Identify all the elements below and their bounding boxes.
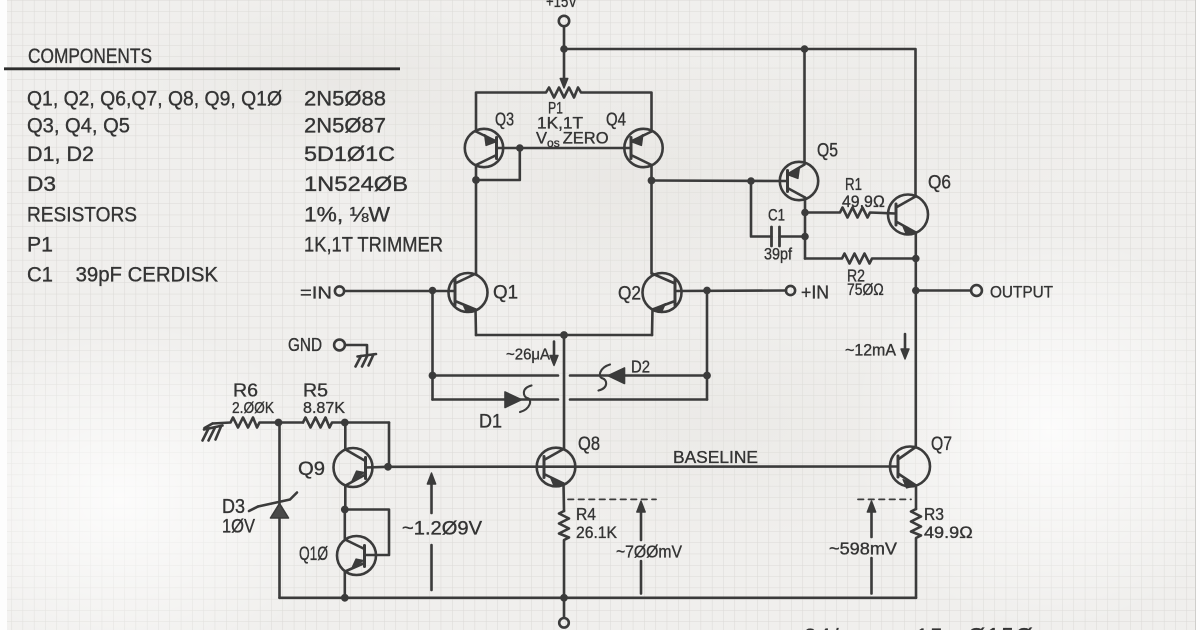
wire: Q3 collector down to Q1 [475, 165, 478, 274]
node: right D2-rail dot [703, 372, 711, 380]
node: Q5 base / C1 junction dot [747, 177, 755, 185]
P1 wiper arrow [560, 79, 568, 89]
node: +IN branch dot [703, 287, 711, 295]
wire: right diode-rail drop [706, 290, 709, 399]
svg-text:D1: D1 [479, 411, 502, 433]
svg-text:BASELINE: BASELINE [673, 447, 758, 467]
node: Q10 emitter on bottom rail [341, 594, 349, 602]
svg-text:+IN: +IN [801, 283, 829, 303]
node: +15V junction dot [560, 45, 568, 53]
wire: Q8 emitter down with R4 [562, 484, 565, 512]
wire: Q3 base to Q4 base [497, 147, 631, 150]
svg-text:RESISTORS: RESISTORS [27, 204, 137, 227]
svg-text:1ØV: 1ØV [222, 516, 255, 538]
wire: GND stub [345, 345, 367, 356]
svg-text:GND: GND [288, 335, 322, 355]
node: tail junction dot [560, 331, 568, 339]
resistor R5 8.87K [303, 418, 389, 428]
resistor R6 2.00K [213, 418, 304, 428]
svg-text:75ØΩ: 75ØΩ [847, 281, 884, 299]
wire: baseline Q9 to Q7 [388, 465, 898, 468]
wire: Q6 emitter column down to Q7 collector [914, 233, 917, 448]
wire: +15V terminal down to P1 wiper [563, 27, 566, 80]
svg-text:C1 39pF CERDISK: C1 39pF CERDISK [27, 264, 218, 287]
transistor Q9 (2N5088) [334, 448, 373, 487]
wire: Q1 emitter to common rail [474, 310, 477, 336]
transistor Q8 (2N5088) [537, 448, 576, 487]
wire: base-collector tie link of Q3 [476, 148, 520, 180]
svg-text:R4: R4 [576, 504, 596, 524]
dashed measure line at Q7 emitter [858, 498, 911, 500]
transistor Q10 (2N5088, diode-connected) [337, 536, 376, 575]
node: left D2-rail dot [429, 372, 437, 380]
svg-text:8.87K: 8.87K [303, 400, 345, 417]
svg-text:VosZERO: VosZERO [536, 130, 609, 151]
node: R4 bottom on rail [560, 594, 568, 602]
wire: Q2 base to +IN [676, 289, 787, 292]
svg-text:Ø15Ø: Ø15Ø [968, 624, 1035, 630]
svg-text:~26μA: ~26μA [506, 347, 550, 364]
capacitor C1 39pF [751, 181, 772, 237]
wire: D1 rail (lower) [433, 398, 708, 401]
svg-text:R1: R1 [845, 174, 862, 194]
node: -IN branch dot [429, 287, 437, 295]
current arrow ~12mA [904, 334, 907, 351]
wire: Q4 collector down to Q2 [650, 165, 653, 274]
node: R1 row dot [801, 209, 809, 217]
svg-text:Q5: Q5 [817, 141, 838, 162]
resistor R4 26.1K [559, 511, 569, 598]
svg-text:26.1K: 26.1K [576, 523, 618, 542]
resistor R3 49.9 ohm [911, 509, 921, 598]
svg-text:5D1Ø1C: 5D1Ø1C [304, 143, 395, 166]
measure arrow ~1.209V [430, 482, 433, 590]
transistor Q3 (2N5087 PNP, diode-connected) [465, 129, 503, 167]
node: Q9 emitter / Q10 collector dot [341, 506, 349, 514]
node: Q5 collector junction on top rail [801, 45, 809, 53]
wire: -15V stub [563, 598, 566, 618]
svg-text:2N5Ø87: 2N5Ø87 [304, 115, 386, 138]
paper shading blotches [0, 320, 340, 630]
svg-text:R3: R3 [924, 504, 944, 524]
svg-text:R5: R5 [303, 381, 328, 401]
svg-text:24/: 24/ [804, 624, 841, 630]
svg-text:D1, D2: D1, D2 [27, 143, 94, 166]
svg-text:R6: R6 [233, 381, 258, 401]
wire: left diode-rail drop [431, 291, 434, 400]
wire: R5 rail corner down to Q9 base node [388, 423, 391, 467]
node: Q9 base / baseline dot [384, 463, 392, 471]
svg-text:~7ØØmV: ~7ØØmV [616, 542, 682, 562]
+15V supply terminal [559, 16, 569, 26]
ground symbol (GND terminal) [358, 354, 377, 357]
svg-text:~12mA: ~12mA [845, 342, 896, 360]
wire: bottom rail [280, 596, 917, 599]
node: R2/Q6-emitter dot [912, 255, 920, 263]
node: C1 right plate dot [801, 233, 809, 241]
GND terminal [334, 340, 345, 351]
left white edge strip [0, 0, 7, 630]
-15V terminal (cut at bottom) [559, 618, 569, 628]
svg-text:D2: D2 [631, 357, 650, 377]
measure arrow ~598mV [870, 510, 873, 594]
svg-text:1%, ⅛W: 1%, ⅛W [304, 204, 390, 227]
transistor Q4 (2N5087 PNP) [624, 129, 662, 167]
wire: common emitter rail [476, 334, 652, 337]
svg-text:39pf: 39pf [764, 246, 792, 264]
svg-text:Q4: Q4 [606, 109, 626, 130]
wire: Q9 collector up to R5 rail [344, 423, 347, 450]
node: Q4 collector junction dot [648, 177, 656, 185]
svg-text:Q7: Q7 [931, 434, 952, 455]
svg-text:Q1Ø: Q1Ø [299, 544, 328, 565]
resistor R1 49.9 ohm [805, 208, 896, 218]
dashed measure line at Q8 emitter [568, 498, 656, 500]
wire: output stub [916, 289, 971, 292]
node: Q3 collector-base tie dot [472, 176, 480, 184]
-IN terminal [335, 286, 344, 295]
node: output junction dot [912, 287, 920, 295]
transistor Q7 (2N5088) [890, 447, 930, 487]
wire: -IN to Q1 base [344, 290, 454, 293]
wire: Q5 collector riser [803, 49, 806, 163]
svg-text:C1: C1 [768, 207, 785, 225]
svg-text:15: 15 [916, 624, 944, 630]
svg-text:Q1, Q2, Q6,Q7, Q8, Q9, Q1Ø: Q1, Q2, Q6,Q7, Q8, Q9, Q1Ø [27, 88, 282, 111]
right white edge strip [1196, 0, 1200, 630]
svg-text:Q6: Q6 [928, 172, 951, 194]
wire: Q2 emitter to common rail [651, 310, 654, 336]
zener D3 (1N5240B 10V) [278, 423, 281, 598]
svg-text:D3: D3 [27, 173, 56, 196]
node: R5/Q9 collector dot [341, 419, 349, 427]
components heading underline [4, 67, 400, 70]
diode D2 (5D101C, pointing left) [608, 368, 625, 384]
wire: Q10 emitter to bottom rail [343, 572, 346, 598]
svg-text:1N524ØB: 1N524ØB [304, 173, 408, 196]
current arrow ~26uA [553, 342, 556, 358]
potentiometer P1 (1K,1T) [476, 88, 652, 132]
transistor Q5 (2N5087 PNP) [780, 162, 818, 200]
+IN terminal [786, 286, 795, 295]
wire: Q4 collector to Q5 base [652, 179, 788, 182]
wire: Q10 base tie link [345, 510, 389, 556]
wire: Q5 emitter down through R1/C1/R2 nodes [804, 198, 807, 259]
node: Q3 base junction dot [516, 144, 524, 152]
transistor Q1 (2N5088 NPN) [449, 273, 488, 312]
svg-text:Q2: Q2 [618, 283, 641, 305]
wire: top rail from +15V node to Q6 collector column [564, 49, 916, 196]
wire: Q9 base to baseline node [366, 465, 389, 468]
resistor R2 750 ohm [805, 254, 916, 264]
wire: Q9 emitter down [344, 486, 347, 510]
wire: D2 rail (upper) [433, 374, 708, 377]
svg-text:=IN: =IN [300, 283, 332, 303]
ground symbol (left of R6) [205, 424, 213, 429]
svg-text:Q9: Q9 [298, 458, 325, 480]
svg-text:P1: P1 [27, 234, 53, 257]
wire: Q10 collector from node [343, 510, 346, 540]
measure arrow ~700mV [640, 510, 643, 594]
transistor Q2 (2N5088 NPN) [643, 273, 682, 312]
svg-text:49.9Ω: 49.9Ω [842, 193, 885, 211]
svg-text:2.ØØK: 2.ØØK [232, 400, 274, 417]
wire: tail current line down to Q8 collector [563, 335, 566, 449]
svg-text:+15V: +15V [546, 0, 578, 11]
node: R6/R5 junction dot (D3 top) [275, 419, 283, 427]
OUTPUT terminal [971, 285, 982, 296]
svg-text:49.9Ω: 49.9Ω [924, 524, 973, 542]
wire: Q7 emitter down with R3 [915, 486, 918, 510]
svg-text:COMPONENTS: COMPONENTS [28, 44, 152, 68]
svg-text:1K,1T TRIMMER: 1K,1T TRIMMER [304, 234, 443, 257]
svg-text:~1.2Ø9V: ~1.2Ø9V [402, 519, 482, 540]
svg-text:~598mV: ~598mV [829, 539, 897, 559]
svg-text:Q3: Q3 [495, 109, 514, 130]
svg-text:Q3, Q4, Q5: Q3, Q4, Q5 [27, 115, 130, 138]
transistor Q6 (2N5088 NPN) [888, 195, 928, 235]
svg-text:OUTPUT: OUTPUT [990, 283, 1053, 302]
svg-text:Q8: Q8 [578, 434, 600, 455]
svg-text:Q1: Q1 [493, 282, 518, 304]
svg-text:2N5Ø88: 2N5Ø88 [304, 88, 386, 111]
diode D1 (5D101C, pointing right) [505, 392, 522, 408]
